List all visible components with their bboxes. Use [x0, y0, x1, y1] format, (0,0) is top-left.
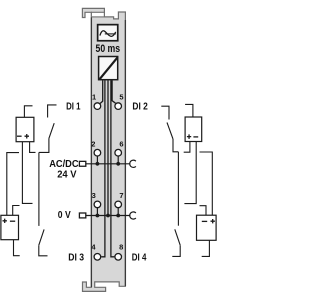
svg-text:24 V: 24 V	[57, 170, 76, 181]
wire D (S1 to S2)	[38, 152, 40, 226]
field supply plug 24V	[79, 161, 85, 166]
switch S4 blade	[175, 229, 180, 245]
power jumper contact arc 24V	[130, 160, 136, 167]
terminal 8	[115, 253, 122, 260]
junction node terminal3/bus	[96, 214, 100, 218]
svg-text:AC/DC: AC/DC	[49, 159, 79, 170]
switch S1 blade	[49, 123, 54, 138]
module left side edge	[90, 17, 92, 287]
wire G2 top elbow	[13, 206, 20, 216]
terminal 7	[115, 201, 122, 208]
switch S3 bottom lead	[173, 139, 178, 152]
AC symbol box U1	[98, 25, 118, 41]
wire to terminal 5	[112, 80, 115, 103]
junction node terminal6/bus	[116, 162, 120, 166]
field supply plug 0V	[79, 213, 85, 218]
terminal 6	[115, 149, 122, 156]
switch S1 bottom lead	[39, 138, 49, 152]
wire G3 minus down	[184, 142, 196, 204]
svg-text:3: 3	[92, 191, 96, 200]
24V bus wire	[86, 163, 130, 165]
wire G2 bottom elbow	[14, 240, 20, 256]
svg-text:DI 2: DI 2	[132, 102, 148, 113]
junction node terminal7/bus	[116, 214, 120, 218]
wire terminal 2 to 24V bus	[96, 156, 98, 164]
svg-text:DI 3: DI 3	[68, 253, 84, 264]
power jumper contact arc 0V	[130, 212, 136, 219]
svg-text:8: 8	[119, 243, 123, 252]
svg-text:5: 5	[119, 92, 123, 101]
wire to terminal 4	[101, 80, 105, 256]
wire G3 plus stub	[185, 104, 193, 117]
terminal 1	[94, 103, 101, 110]
wire to terminal 1	[100, 80, 103, 103]
terminal 5	[115, 103, 122, 110]
terminal 3	[94, 201, 101, 208]
switch S2 bottom lead	[39, 245, 48, 256]
svg-text:2: 2	[91, 139, 95, 148]
battery G1 (left upper supply)	[16, 117, 34, 141]
wire to terminal 8	[111, 80, 115, 256]
terminal 2	[94, 149, 101, 156]
battery G2 (left lower supply)	[1, 215, 19, 239]
wire terminal 7 to 0V bus	[117, 208, 119, 216]
release tab slot (white groove under top bar)	[91, 12, 104, 17]
switch S3 blade	[167, 123, 173, 140]
switch S3 top stub	[161, 106, 169, 119]
0V bus wire	[86, 215, 130, 217]
wire G1 minus down	[22, 142, 32, 204]
svg-text:6: 6	[119, 139, 123, 148]
svg-text:50 ms: 50 ms	[96, 43, 121, 55]
wire G1 plus stub	[24, 106, 32, 118]
battery G3 (right upper supply)	[185, 117, 202, 142]
svg-text:1: 1	[92, 92, 96, 101]
switch S2 blade	[39, 229, 44, 245]
terminal 4	[94, 253, 101, 260]
svg-text:DI 4: DI 4	[132, 253, 147, 264]
battery G4 (right lower supply)	[197, 215, 217, 240]
wire G3 plus left stub	[184, 142, 190, 153]
wire G4 bottom elbow	[202, 240, 210, 256]
switch S1 top stub	[48, 105, 57, 118]
wire terminal 6 to 24V bus	[117, 156, 119, 164]
svg-text:DI 1: DI 1	[66, 102, 81, 113]
svg-text:0 V: 0 V	[58, 210, 71, 221]
module body K1 (I/O module housing outline)	[82, 8, 125, 291]
svg-text:7: 7	[119, 191, 123, 200]
junction node 0V wire/bus	[106, 214, 110, 218]
input function block U2 (box with diagonal)	[99, 57, 118, 80]
far left wire	[7, 153, 19, 216]
module right side edge	[124, 20, 126, 286]
far right wire	[200, 152, 213, 215]
junction node terminal2/bus	[96, 162, 100, 166]
wire D2 (S3 to S4)	[177, 152, 179, 226]
wire terminal 3 to 0V bus	[96, 208, 98, 216]
wire G1 plus right stub	[30, 142, 36, 153]
switch S4 bottom lead	[172, 245, 180, 256]
wire 0V to function block	[107, 80, 109, 215]
wire G4 top elbow	[200, 206, 207, 216]
